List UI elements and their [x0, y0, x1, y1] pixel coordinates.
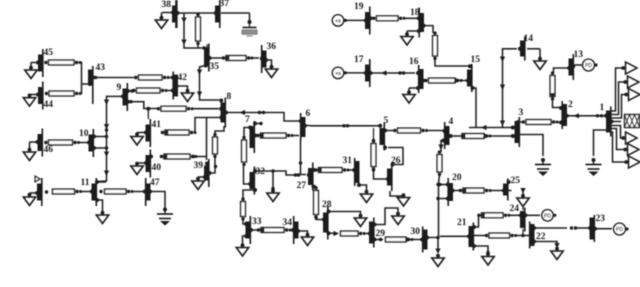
wire: [518, 121, 561, 124]
svg-text:33: 33: [252, 217, 262, 227]
transistor 14: [518, 34, 533, 61]
wire: [132, 191, 144, 193]
ground: [298, 231, 314, 246]
ground: [551, 243, 563, 260]
buffer: [624, 156, 640, 168]
ground: [265, 65, 277, 78]
wire: [206, 45, 208, 49]
ground: [177, 86, 194, 102]
resistor: [157, 106, 194, 111]
wire: [147, 109, 149, 120]
wire: [452, 190, 460, 192]
svg-text:3: 3: [519, 108, 524, 118]
wire: [423, 80, 427, 82]
transistor 45: [36, 48, 53, 77]
resistor: [213, 133, 218, 158]
pad circle: [332, 67, 347, 79]
buffer: [621, 132, 637, 144]
svg-text:45: 45: [44, 48, 54, 58]
svg-text:24: 24: [510, 204, 520, 214]
wire: [210, 57, 259, 59]
wire: [346, 72, 366, 74]
wire: [518, 135, 543, 157]
resistor: [242, 136, 247, 166]
svg-text:25: 25: [511, 176, 521, 186]
svg-text:30: 30: [411, 227, 421, 237]
wire: [440, 235, 469, 237]
ground: [23, 94, 37, 107]
wire: [522, 206, 524, 211]
transistor 19: [354, 2, 373, 35]
wire: [508, 190, 512, 192]
wire: [550, 93, 561, 108]
wire: [226, 110, 266, 115]
ground: [403, 88, 418, 103]
capacitor: [586, 158, 602, 176]
resistor: [134, 75, 169, 80]
svg-text:44: 44: [44, 100, 54, 110]
ground: [155, 13, 172, 29]
ground: [432, 249, 444, 267]
resistor: [477, 213, 510, 218]
transistor 21: [457, 218, 476, 251]
svg-text:6: 6: [306, 109, 311, 119]
wire: [370, 70, 415, 75]
transistor 27: [297, 163, 316, 192]
transistor 7: [245, 115, 257, 153]
ground: [267, 171, 279, 202]
wire: [94, 135, 109, 138]
transistor 6: [299, 109, 311, 141]
wire: [244, 165, 251, 184]
svg-text:43: 43: [96, 63, 106, 73]
wire: [572, 65, 582, 68]
svg-text:13: 13: [574, 50, 584, 60]
capacitor: [157, 208, 173, 226]
wire: [94, 128, 109, 149]
wire: [374, 208, 398, 225]
resistor: [222, 55, 254, 60]
wire: [576, 227, 590, 229]
wire: [474, 235, 487, 237]
ground: [482, 252, 494, 265]
resistor: [241, 197, 246, 220]
transistor 25: [502, 176, 520, 201]
transistor 3: [511, 108, 524, 147]
svg-text:27: 27: [297, 181, 307, 191]
transistor 23: [588, 214, 605, 242]
wire: [93, 76, 136, 79]
transistor 40: [144, 150, 161, 178]
wire: [374, 238, 383, 241]
wire: [98, 96, 123, 181]
wire: [509, 214, 521, 216]
svg-text:42: 42: [178, 73, 188, 83]
wire: [313, 187, 316, 190]
wire: [423, 26, 433, 33]
transistor 1: [600, 103, 614, 137]
wire: [197, 66, 219, 101]
ground: [192, 177, 204, 190]
transistor 43: [88, 63, 105, 104]
svg-text:19: 19: [354, 2, 364, 12]
svg-text:31: 31: [343, 156, 353, 166]
wire: [316, 218, 324, 220]
ground: [23, 193, 36, 206]
transistor 11: [81, 178, 100, 206]
resistor: [460, 133, 492, 138]
wire: [364, 233, 370, 235]
svg-text:+a: +a: [335, 18, 341, 24]
ground: [390, 191, 410, 206]
wire: [388, 148, 403, 165]
wire: [554, 68, 570, 73]
transistor 16: [409, 57, 425, 93]
wire: [412, 239, 422, 241]
resistor: [132, 88, 167, 93]
wire: [436, 197, 447, 200]
wire: [439, 175, 440, 238]
capacitor: [221, 13, 257, 36]
transistor 34: [283, 216, 301, 244]
ground: [401, 31, 418, 45]
wire: [328, 231, 339, 236]
resistor: [437, 150, 442, 176]
wire: [241, 236, 246, 247]
transistor 2: [559, 100, 573, 129]
ground: [23, 142, 36, 161]
wire: [474, 246, 490, 254]
wire: [372, 128, 375, 142]
wire: [535, 242, 557, 248]
transistor 33: [244, 216, 262, 244]
wire: [97, 200, 103, 213]
wire: [328, 212, 361, 216]
transistor 39: [194, 159, 212, 187]
transistor 44: [36, 82, 53, 111]
wire: [244, 128, 250, 138]
wire: [611, 95, 625, 119]
wire: [474, 215, 479, 227]
wire: [265, 60, 272, 66]
transistor 5: [378, 116, 388, 151]
transistor 36: [260, 42, 276, 73]
wire: [500, 49, 517, 127]
transistor 22: [530, 222, 546, 249]
resistor: [424, 78, 462, 83]
resistor: [44, 140, 80, 145]
wire: [255, 135, 300, 137]
wire: [461, 80, 468, 82]
wire: [449, 134, 462, 138]
ground: [96, 211, 108, 224]
resistor: [256, 133, 293, 138]
svg-text:20: 20: [452, 173, 462, 183]
wire: [595, 228, 613, 230]
resistor: [550, 71, 555, 100]
wire: [135, 102, 158, 109]
resistor: [160, 154, 198, 159]
wire: [255, 122, 263, 125]
transistor 29: [368, 218, 385, 248]
svg-text:47: 47: [150, 178, 160, 188]
wire: [611, 68, 622, 111]
svg-text:22: 22: [536, 232, 546, 242]
svg-text:8: 8: [227, 92, 232, 102]
svg-text:2: 2: [568, 100, 573, 110]
resistor: [522, 120, 559, 125]
transistor 9: [117, 83, 130, 111]
svg-text:17: 17: [354, 55, 364, 65]
wire: [79, 142, 89, 144]
wire: [82, 83, 89, 85]
wire: [404, 17, 418, 19]
wire: [181, 14, 204, 49]
transistor 37: [214, 0, 229, 28]
wire: [611, 132, 626, 162]
svg-text:38: 38: [162, 0, 172, 10]
svg-text:21: 21: [457, 218, 467, 228]
wire: [305, 125, 311, 127]
svg-text:39: 39: [194, 161, 204, 171]
wire: [490, 190, 504, 192]
svg-text:1: 1: [600, 103, 605, 113]
svg-text:40: 40: [152, 163, 162, 173]
wire: [243, 190, 255, 199]
ground: [354, 214, 366, 227]
wire: [377, 125, 380, 127]
buffer: [623, 144, 639, 156]
svg-text:PD: PD: [616, 227, 623, 233]
wire: [370, 17, 374, 19]
wire: [177, 12, 215, 14]
resistor: [99, 189, 133, 194]
wire: [127, 100, 135, 103]
transistor 17: [354, 55, 373, 87]
capacitor: [535, 158, 551, 176]
wire: [435, 59, 470, 67]
wire: [195, 118, 220, 133]
svg-text:5: 5: [384, 116, 389, 126]
wire: [535, 226, 577, 229]
transistor 4: [443, 117, 454, 149]
svg-text:32: 32: [256, 167, 266, 177]
ground: [25, 63, 37, 79]
resistor: [485, 233, 517, 238]
wire: [97, 181, 107, 183]
svg-text:36: 36: [267, 42, 277, 52]
transistor 31: [343, 156, 362, 187]
wire: [150, 192, 166, 210]
svg-text:29: 29: [376, 229, 386, 239]
ground: [527, 49, 546, 70]
transistor 15: [466, 55, 480, 92]
wire: [469, 121, 511, 131]
resistor: [44, 60, 81, 65]
wire: [594, 130, 608, 156]
wire: [210, 157, 217, 173]
ground: [131, 162, 145, 175]
transistor 13: [567, 50, 583, 80]
wire: [611, 129, 625, 150]
transistor 35: [204, 44, 219, 73]
resistor: [161, 130, 197, 135]
wire: [611, 126, 623, 139]
wire: [293, 173, 300, 176]
resistor: [341, 231, 366, 236]
wire: [438, 139, 445, 153]
svg-text:16: 16: [409, 57, 419, 67]
transistor P: [35, 176, 42, 206]
transistor 20: [446, 173, 462, 206]
wire: [516, 234, 531, 237]
wire: [522, 229, 524, 236]
pad circle: [614, 223, 629, 235]
wire: [525, 214, 540, 216]
transistor 38: [162, 0, 180, 28]
wire: [215, 126, 224, 134]
resistor: [393, 128, 428, 133]
wire: [255, 169, 294, 175]
pad circle: [542, 210, 557, 222]
wire: [299, 140, 306, 175]
ground: [359, 185, 373, 203]
svg-text:41: 41: [152, 120, 162, 130]
svg-text:28: 28: [322, 200, 332, 210]
pad circle: [583, 59, 598, 71]
resistor: [196, 13, 201, 45]
wire: [166, 90, 173, 92]
svg-text:14: 14: [524, 34, 534, 44]
wire: [611, 82, 624, 115]
svg-text:11: 11: [81, 178, 90, 188]
svg-text:10: 10: [79, 129, 89, 139]
transistor 26: [386, 156, 401, 191]
transistor 46: [36, 129, 54, 157]
wire: [427, 236, 440, 252]
resistor: [371, 139, 376, 170]
svg-text:46: 46: [44, 145, 54, 155]
buffer: [624, 89, 640, 101]
resistor: [257, 227, 292, 232]
transistor 10: [79, 129, 96, 157]
wire: [385, 130, 444, 132]
wire: [243, 219, 246, 224]
node: [202, 46, 205, 49]
ground: [236, 243, 248, 256]
resistor: [314, 186, 319, 218]
svg-text:37: 37: [220, 0, 230, 9]
wire: [611, 121, 621, 123]
wire: [219, 0, 221, 28]
transistor 41: [144, 107, 161, 147]
transistor 28: [322, 200, 332, 240]
wire: [206, 118, 208, 161]
pad circle: [332, 15, 347, 27]
resistor: [314, 167, 349, 172]
wire: [490, 135, 514, 137]
resistor: [45, 189, 82, 194]
svg-text:9: 9: [117, 83, 122, 93]
svg-text:PD: PD: [585, 63, 592, 69]
wire: [197, 44, 199, 49]
svg-text:4: 4: [449, 117, 454, 127]
transistor 42: [171, 72, 187, 100]
wire: [310, 124, 377, 127]
wire: [192, 108, 219, 110]
wire: [472, 88, 476, 128]
wire: [81, 63, 82, 94]
svg-text:PD: PD: [544, 213, 551, 219]
transistor 24: [510, 204, 528, 232]
transistor 32: [248, 167, 265, 195]
wire: [346, 19, 366, 21]
svg-text:35: 35: [210, 62, 220, 72]
wire: [436, 182, 447, 187]
resistor: [386, 237, 414, 242]
buffer: [623, 76, 639, 88]
resistor: [459, 188, 492, 193]
wire: [175, 0, 177, 28]
wire: [372, 168, 387, 179]
ground: [517, 188, 529, 207]
transistor 30: [411, 227, 430, 253]
wire: [168, 77, 173, 79]
wire: [566, 113, 604, 118]
svg-text:7: 7: [245, 115, 250, 125]
resistor: [372, 16, 405, 21]
wire: [127, 89, 134, 92]
svg-text:15: 15: [471, 55, 481, 65]
wire: [251, 229, 294, 231]
buffer: [621, 62, 637, 74]
ground: [131, 132, 145, 145]
wire: [313, 169, 354, 171]
transistor 47: [143, 178, 160, 206]
crosshatch load: [625, 115, 640, 128]
wire: [314, 216, 317, 219]
wire: [192, 155, 207, 158]
svg-text:23: 23: [596, 214, 606, 224]
ground: [392, 212, 404, 225]
resistor: [45, 91, 82, 96]
transistor 18: [410, 8, 426, 38]
svg-text:34: 34: [283, 218, 293, 228]
wire: [81, 191, 92, 193]
resistor: [433, 31, 438, 60]
wire: [264, 113, 301, 122]
transistor 8: [219, 92, 231, 128]
svg-text:+a: +a: [335, 71, 341, 77]
